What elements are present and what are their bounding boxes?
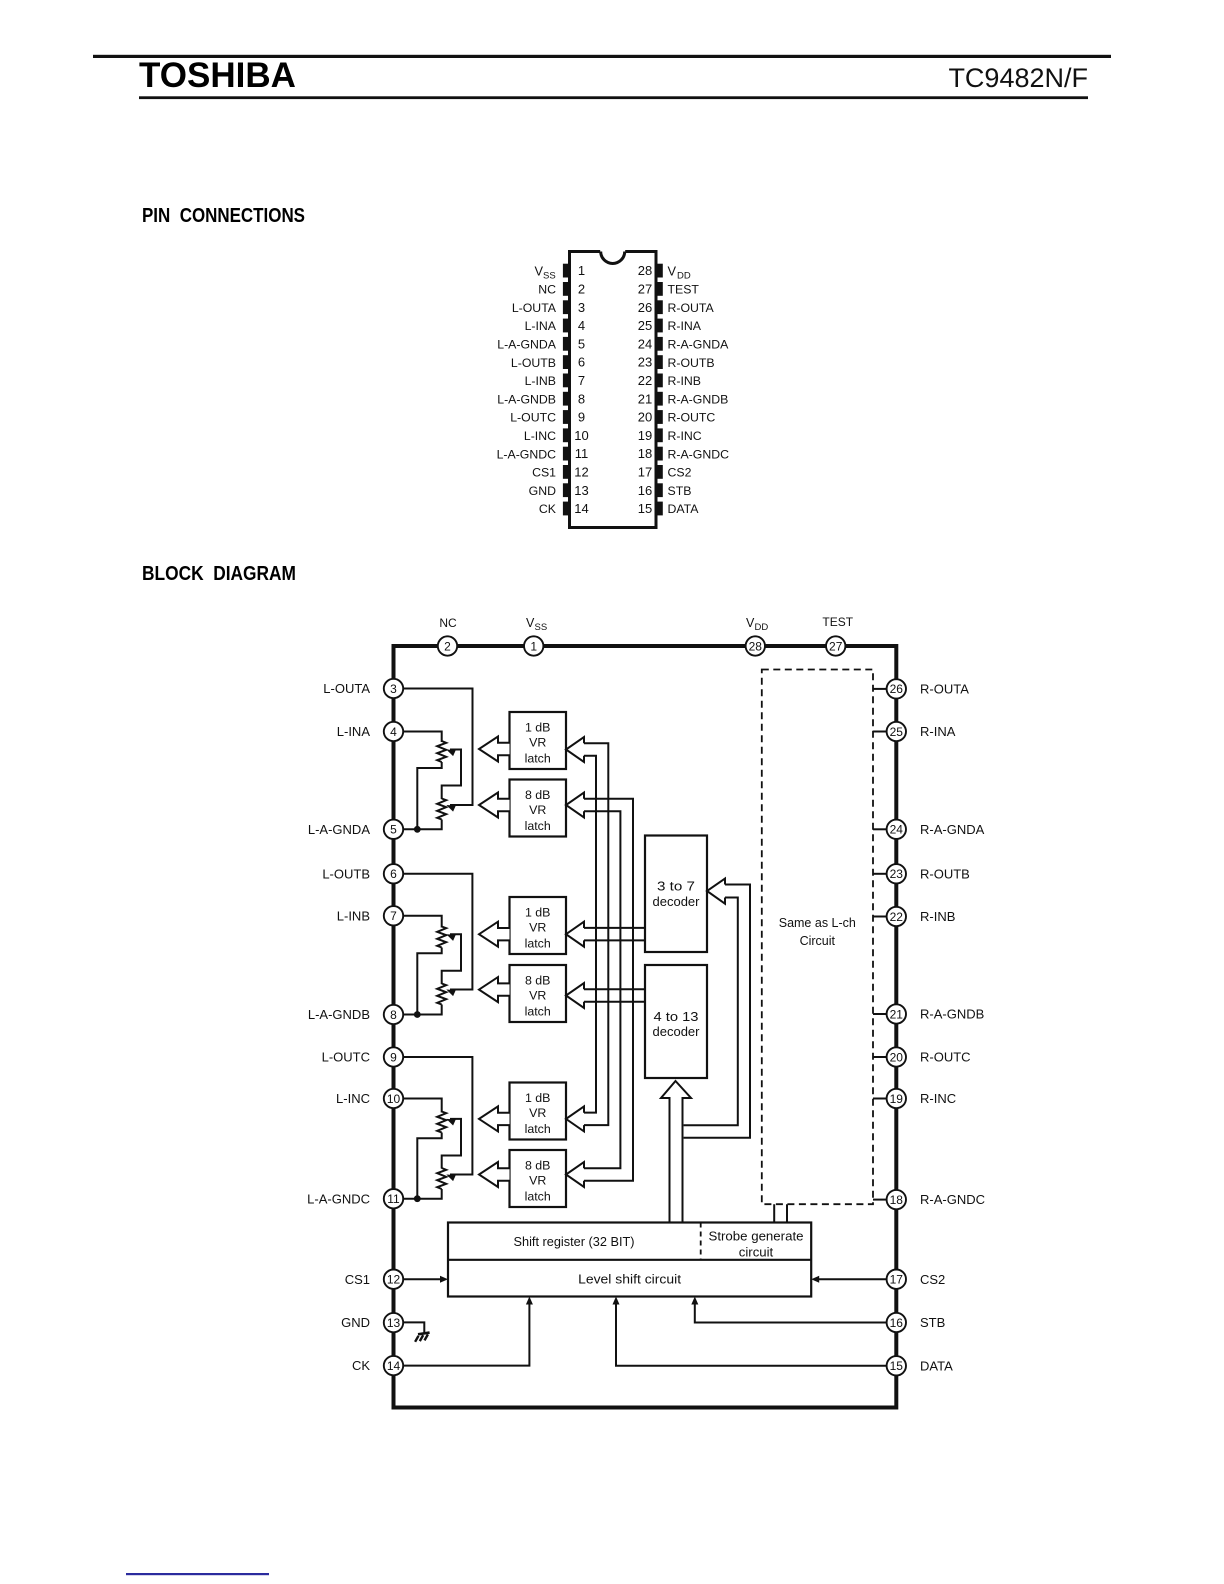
- latch U3 1 dB VR latch box: [510, 897, 567, 954]
- wiper arrow VR2C: [445, 1171, 456, 1181]
- footer rule (blue): [126, 1573, 269, 1575]
- DIP pin 13 lead (GND): [563, 483, 570, 497]
- pin label CK: [352, 1358, 370, 1373]
- DIP pin 17 number: [638, 465, 652, 480]
- latch U3 output block arrow: [479, 922, 510, 947]
- svg-text:DD: DD: [755, 622, 769, 633]
- svg-text:L-OUTC: L-OUTC: [322, 1050, 370, 1065]
- wire shift register to 3-to-7 decoder (line 1): [684, 885, 750, 1138]
- svg-text:R-A-GNDB: R-A-GNDB: [920, 1007, 984, 1022]
- svg-text:15: 15: [638, 501, 652, 516]
- junction node A (pin5): [414, 826, 421, 833]
- svg-text:DATA: DATA: [668, 502, 700, 516]
- DIP pin 12 number: [574, 465, 588, 480]
- wire VR1A bottom to pin5 rail: [417, 762, 441, 829]
- wire R-ch block to pin 23: [873, 873, 887, 875]
- svg-text:R-A-GNDA: R-A-GNDA: [668, 338, 730, 352]
- DIP pin 18 label R-A-GNDC: [668, 447, 730, 461]
- svg-text:L-INB: L-INB: [525, 374, 556, 388]
- wire R-ch block to pin 20: [873, 1056, 887, 1058]
- svg-text:L-INB: L-INB: [337, 908, 370, 923]
- wire R-ch block to pin 21: [873, 1013, 887, 1015]
- svg-text:9: 9: [390, 1050, 397, 1064]
- pin label CS1: [345, 1272, 370, 1287]
- DIP pin 3 label L-OUTA: [512, 301, 557, 315]
- DIP pin 1 number: [578, 263, 585, 278]
- DIP pin 21 label R-A-GNDB: [668, 392, 729, 406]
- svg-text:4: 4: [578, 318, 585, 333]
- potentiometer VR1C (1 dB): [437, 1112, 446, 1133]
- svg-text:decoder: decoder: [653, 894, 701, 909]
- wire pin3 L-OUTA to pot VR2A wiper: [402, 689, 473, 806]
- DIP pin 22 number: [638, 373, 652, 388]
- DIP pin 25 lead (R-INA): [656, 319, 663, 333]
- pin label L-A-GNDA: [308, 822, 370, 837]
- svg-text:9: 9: [578, 410, 585, 425]
- wire VR1C wiper to VR2C top: [442, 1119, 461, 1169]
- pin label R-OUTA: [920, 682, 969, 697]
- svg-text:R-OUTA: R-OUTA: [668, 301, 715, 315]
- DIP pin 2 number: [578, 282, 585, 297]
- svg-text:8 dB: 8 dB: [525, 788, 551, 802]
- DIP pin 18 lead (R-A-GNDC): [656, 447, 663, 461]
- node label VDD: [746, 616, 768, 633]
- package pin-1 index notch: [600, 249, 625, 263]
- wire STB into level shift: [691, 1297, 887, 1323]
- DIP pin 6 label L-OUTB: [511, 356, 556, 370]
- wire 4-to-13 decoder outputs to 8dB latch B: [584, 989, 645, 1002]
- DIP pin 16 lead (STB): [656, 483, 663, 497]
- svg-text:18: 18: [890, 1193, 904, 1207]
- DIP pin 9 label L-OUTC: [510, 411, 556, 425]
- svg-text:15: 15: [890, 1359, 904, 1373]
- svg-text:27: 27: [829, 639, 843, 653]
- svg-text:latch: latch: [525, 1190, 551, 1204]
- svg-text:L-INC: L-INC: [524, 429, 556, 443]
- DIP pin 23 number: [638, 355, 652, 370]
- svg-text:21: 21: [890, 1007, 904, 1021]
- pin 16 terminal circle (STB): [887, 1313, 906, 1332]
- pin label R-A-GNDC: [920, 1192, 985, 1207]
- svg-text:L-A-GNDA: L-A-GNDA: [308, 822, 370, 837]
- pin 28 terminal circle: [746, 636, 765, 655]
- pin 12 terminal circle (CS1): [384, 1270, 403, 1289]
- svg-text:Level shift circuit: Level shift circuit: [578, 1272, 681, 1287]
- wire R-ch block to pin 25: [873, 731, 887, 733]
- svg-text:6: 6: [390, 867, 397, 881]
- junction node B (pin8): [414, 1011, 421, 1018]
- DIP pin 23 label R-OUTB: [668, 356, 715, 370]
- wire pin13 GND to ground symbol: [402, 1322, 424, 1333]
- latch U5 input arrowhead: [566, 1106, 584, 1131]
- svg-text:6: 6: [578, 355, 585, 370]
- wiper arrow VR1A: [445, 746, 456, 756]
- svg-text:27: 27: [638, 282, 652, 297]
- latch U6 8 dB VR latch box: [510, 1150, 567, 1207]
- svg-text:25: 25: [890, 725, 904, 739]
- DIP pin 6 lead (L-OUTB): [563, 355, 570, 369]
- DIP pin 23 lead (R-OUTB): [656, 355, 663, 369]
- DIP pin 19 number: [638, 428, 652, 443]
- pin 2 terminal circle: [438, 636, 457, 655]
- pin 10 terminal circle (L-INC): [384, 1089, 403, 1108]
- latch U4 8 dB VR latch box: [510, 965, 567, 1022]
- svg-text:CS1: CS1: [345, 1272, 370, 1287]
- DIP pin 3 number: [578, 300, 585, 315]
- svg-text:R-A-GNDB: R-A-GNDB: [668, 392, 729, 406]
- wire R-ch block to pin 22: [873, 916, 887, 918]
- DIP pin 19 lead (R-INC): [656, 428, 663, 442]
- latch U4 input arrowhead: [566, 983, 584, 1008]
- svg-text:Strobe generate: Strobe generate: [709, 1229, 804, 1244]
- svg-text:13: 13: [574, 483, 588, 498]
- svg-text:GND: GND: [529, 484, 556, 498]
- svg-text:20: 20: [638, 410, 652, 425]
- bus block arrow into 4-to-13 decoder: [661, 1081, 691, 1223]
- svg-text:21: 21: [638, 391, 652, 406]
- svg-text:10: 10: [387, 1092, 401, 1106]
- pin label R-INB: [920, 909, 955, 924]
- wire R-ch block to pin 24: [873, 828, 887, 830]
- svg-text:R-A-GNDC: R-A-GNDC: [668, 447, 730, 461]
- DIP pin 8 label L-A-GNDB: [497, 392, 556, 406]
- wire pin7 L-INB to pot VR1B top: [402, 916, 442, 928]
- svg-text:L-OUTB: L-OUTB: [511, 356, 556, 370]
- DIP pin 15 number: [638, 501, 652, 516]
- svg-text:2: 2: [578, 282, 585, 297]
- pin label L-A-GNDC: [307, 1191, 370, 1206]
- svg-text:11: 11: [387, 1192, 400, 1206]
- DIP pin 15 label DATA: [668, 502, 700, 516]
- IC boundary box: [394, 646, 897, 1408]
- DIP pin 6 number: [578, 355, 585, 370]
- bus wire 8dB select line 1 (latch A top / latch C bottom): [584, 799, 633, 1181]
- pin 24 terminal circle (R-A-GNDA): [887, 820, 906, 839]
- svg-text:19: 19: [638, 428, 652, 443]
- DIP pin 22 label R-INB: [668, 374, 701, 388]
- DIP pin 25 label R-INA: [668, 319, 702, 333]
- latch U1 1 dB VR latch box: [510, 712, 567, 769]
- ground symbol (chassis): [415, 1333, 430, 1342]
- potentiometer VR2C (8 dB): [437, 1168, 446, 1189]
- latch U2 output block arrow: [479, 793, 510, 818]
- DIP pin 28 lead (VDD): [656, 264, 663, 278]
- svg-text:SS: SS: [535, 622, 548, 633]
- pin label CS2: [920, 1272, 945, 1287]
- DIP pin 5 lead (L-A-GNDA): [563, 337, 570, 351]
- svg-text:1 dB: 1 dB: [525, 720, 551, 734]
- svg-text:STB: STB: [668, 484, 692, 498]
- svg-text:R-A-GNDA: R-A-GNDA: [920, 822, 985, 837]
- svg-text:NC: NC: [439, 616, 457, 630]
- latch U1 output block arrow: [479, 737, 510, 762]
- DIP pin 4 number: [578, 318, 585, 333]
- wire CS1 into level shift: [402, 1276, 448, 1283]
- wire R-ch block to strobe circuit (2 lines): [774, 1204, 787, 1222]
- DIP pin 1 lead (VSS): [563, 264, 570, 278]
- wire R-ch block to pin 18: [873, 1199, 887, 1201]
- DIP pin 26 number: [638, 300, 652, 315]
- wire R-ch block to pin 19: [873, 1098, 887, 1100]
- svg-text:CS2: CS2: [920, 1272, 945, 1287]
- svg-text:17: 17: [638, 465, 652, 480]
- junction node C (pin11): [414, 1195, 421, 1202]
- pin label L-OUTA: [323, 681, 370, 696]
- decoder U7 input arrowhead: [707, 879, 725, 904]
- svg-text:19: 19: [890, 1092, 904, 1106]
- DIP pin 20 number: [638, 410, 652, 425]
- svg-text:VR: VR: [529, 1174, 546, 1188]
- svg-text:CS1: CS1: [532, 466, 556, 480]
- pin 5 terminal circle (L-A-GNDA): [384, 820, 403, 839]
- pin 15 terminal circle (DATA): [887, 1356, 906, 1375]
- pin 17 terminal circle (CS2): [887, 1270, 906, 1289]
- svg-text:VR: VR: [529, 736, 546, 750]
- DIP pin 27 label TEST: [668, 283, 700, 297]
- part number TC9482N/F: [948, 63, 1088, 93]
- svg-text:L-INA: L-INA: [337, 724, 371, 739]
- svg-text:7: 7: [578, 373, 585, 388]
- DIP pin 16 label STB: [668, 484, 692, 498]
- svg-text:1: 1: [578, 263, 585, 278]
- svg-text:latch: latch: [525, 1122, 551, 1136]
- svg-text:VR: VR: [529, 921, 546, 935]
- svg-text:V: V: [668, 263, 677, 278]
- DIP pin 7 lead (L-INB): [563, 374, 570, 388]
- shift register and level shift block: [448, 1223, 811, 1297]
- DIP pin 19 label R-INC: [668, 429, 702, 443]
- svg-text:1 dB: 1 dB: [525, 905, 551, 919]
- DIP pin 26 lead (R-OUTA): [656, 300, 663, 314]
- wire pin8 L-A-GNDB to VR2B bottom: [402, 1005, 442, 1015]
- pin label R-INA: [920, 724, 956, 739]
- DIP pin 5 label L-A-GNDA: [497, 338, 557, 352]
- wiper arrow VR2A: [445, 802, 456, 812]
- svg-text:decoder: decoder: [653, 1024, 701, 1039]
- pin label GND: [341, 1315, 370, 1330]
- DIP pin 25 number: [638, 318, 652, 333]
- wire pin10 L-INC to pot VR1C top: [402, 1099, 442, 1113]
- header top rule: [93, 55, 1111, 58]
- DIP pin 26 label R-OUTA: [668, 301, 715, 315]
- pin 26 terminal circle (R-OUTA): [887, 679, 906, 698]
- pin 22 terminal circle (R-INB): [887, 907, 906, 926]
- wire VR1C bottom to pin11 rail: [417, 1133, 441, 1199]
- svg-text:L-INC: L-INC: [336, 1091, 370, 1106]
- svg-text:R-OUTA: R-OUTA: [920, 682, 969, 697]
- pin 23 terminal circle (R-OUTB): [887, 864, 906, 883]
- svg-text:28: 28: [749, 639, 763, 653]
- svg-text:14: 14: [387, 1359, 401, 1373]
- pin 20 terminal circle (R-OUTC): [887, 1047, 906, 1066]
- svg-text:TEST: TEST: [822, 615, 853, 629]
- svg-text:R-INA: R-INA: [920, 724, 956, 739]
- pin 4 terminal circle (L-INA): [384, 722, 403, 741]
- pin label R-OUTB: [920, 866, 970, 881]
- DIP pin 4 label L-INA: [525, 319, 557, 333]
- IC package TC9482 body (28-pin DIP): [570, 252, 657, 528]
- DIP pin 28 label VDD: [668, 263, 691, 281]
- svg-text:L-A-GNDB: L-A-GNDB: [308, 1007, 370, 1022]
- svg-text:23: 23: [890, 867, 904, 881]
- wire VR1B bottom to pin8 rail: [417, 948, 441, 1015]
- svg-text:TEST: TEST: [668, 283, 700, 297]
- svg-text:8: 8: [390, 1008, 397, 1022]
- svg-text:12: 12: [387, 1273, 401, 1287]
- decoder U7 3-to-7 box: [645, 836, 707, 953]
- potentiometer VR1A (1 dB): [437, 741, 446, 762]
- svg-text:Circuit: Circuit: [800, 934, 836, 948]
- DIP pin 20 lead (R-OUTC): [656, 410, 663, 424]
- DIP pin 14 number: [574, 501, 588, 516]
- DIP pin 11 number: [575, 446, 589, 461]
- pin label STB: [920, 1315, 945, 1330]
- DIP pin 28 number: [638, 263, 652, 278]
- DIP pin 8 number: [578, 391, 585, 406]
- DIP pin 12 label CS1: [532, 466, 556, 480]
- svg-text:L-OUTA: L-OUTA: [512, 301, 557, 315]
- svg-text:R-INB: R-INB: [668, 374, 701, 388]
- pin label R-INC: [920, 1091, 956, 1106]
- svg-text:18: 18: [638, 446, 652, 461]
- pin 25 terminal circle (R-INA): [887, 722, 906, 741]
- DIP pin 27 lead (TEST): [656, 282, 663, 296]
- svg-text:26: 26: [890, 682, 904, 696]
- DIP pin 9 lead (L-OUTC): [563, 410, 570, 424]
- svg-text:TOSHIBA: TOSHIBA: [139, 56, 296, 95]
- pin 19 terminal circle (R-INC): [887, 1089, 906, 1108]
- latch U1 input arrowhead: [566, 737, 584, 762]
- svg-text:12: 12: [574, 465, 588, 480]
- pin 14 terminal circle (CK): [384, 1356, 403, 1375]
- svg-text:8: 8: [578, 391, 585, 406]
- pin label L-OUTB: [322, 866, 370, 881]
- wiper arrow VR1C: [445, 1116, 456, 1126]
- svg-text:GND: GND: [341, 1315, 370, 1330]
- svg-text:VR: VR: [529, 1106, 546, 1120]
- decoder U8 4-to-13 box: [645, 965, 707, 1078]
- node label VSS: [526, 616, 547, 633]
- wire pin5 L-A-GNDA to VR2A bottom: [402, 820, 442, 830]
- svg-text:R-INC: R-INC: [920, 1091, 956, 1106]
- svg-text:NC: NC: [538, 283, 556, 297]
- DIP pin 2 lead (NC): [563, 282, 570, 296]
- latch U3 input arrowhead: [566, 922, 584, 947]
- header bottom rule: [139, 96, 1088, 99]
- DIP pin 13 number: [574, 483, 588, 498]
- DIP pin 22 lead (R-INB): [656, 374, 663, 388]
- latch U5 output block arrow: [479, 1106, 510, 1131]
- DIP pin 16 number: [638, 483, 652, 498]
- BLOCK DIAGRAM heading: [142, 562, 296, 585]
- DIP pin 18 number: [638, 446, 652, 461]
- pin label R-A-GNDA: [920, 822, 985, 837]
- DIP pin 11 label L-A-GNDC: [497, 447, 557, 461]
- svg-text:DD: DD: [677, 270, 691, 281]
- svg-text:L-A-GNDB: L-A-GNDB: [497, 392, 556, 406]
- DIP pin 1 label VSS: [534, 263, 555, 281]
- pin label L-INA: [337, 724, 371, 739]
- wire pin4 L-INA to pot VR1A top: [402, 732, 442, 743]
- svg-text:5: 5: [390, 823, 397, 837]
- potentiometer VR2B (8 dB): [437, 984, 446, 1005]
- DIP pin 7 label L-INB: [525, 374, 556, 388]
- svg-text:R-A-GNDC: R-A-GNDC: [920, 1192, 985, 1207]
- pin 8 terminal circle (L-A-GNDB): [384, 1005, 403, 1024]
- svg-text:CS2: CS2: [668, 466, 692, 480]
- DIP pin 10 label L-INC: [524, 429, 556, 443]
- svg-text:25: 25: [638, 318, 652, 333]
- latch U6 input arrowhead: [566, 1162, 584, 1187]
- svg-text:CK: CK: [539, 502, 557, 516]
- svg-text:1 dB: 1 dB: [525, 1091, 551, 1105]
- pin 1 terminal circle: [524, 636, 543, 655]
- svg-text:R-INB: R-INB: [920, 909, 955, 924]
- wire pin6 L-OUTB to pot VR2B wiper: [402, 874, 472, 990]
- svg-text:5: 5: [578, 336, 585, 351]
- node label NC: [439, 616, 457, 630]
- svg-text:DATA: DATA: [920, 1358, 953, 1373]
- DIP pin 2 label NC: [538, 283, 556, 297]
- latch U2 8 dB VR latch box: [510, 780, 567, 837]
- pin label L-OUTC: [322, 1050, 370, 1065]
- svg-text:3: 3: [578, 300, 585, 315]
- pin label L-INB: [337, 908, 370, 923]
- wire DATA into level shift: [613, 1297, 888, 1366]
- svg-text:4: 4: [390, 725, 397, 739]
- wire pin11 L-A-GNDC to VR2C bottom: [402, 1189, 442, 1199]
- pin label L-A-GNDB: [308, 1007, 370, 1022]
- DIP pin 10 number: [574, 428, 588, 443]
- DIP pin 27 number: [638, 282, 652, 297]
- svg-text:4 to 13: 4 to 13: [654, 1009, 699, 1024]
- svg-text:Shift register (32 BIT): Shift register (32 BIT): [514, 1234, 635, 1249]
- svg-text:L-A-GNDC: L-A-GNDC: [497, 447, 557, 461]
- DIP pin 10 lead (L-INC): [563, 428, 570, 442]
- svg-text:16: 16: [638, 483, 652, 498]
- svg-text:R-OUTC: R-OUTC: [668, 411, 716, 425]
- svg-text:11: 11: [575, 446, 589, 461]
- wire VR1A wiper to VR2A top: [442, 750, 461, 800]
- svg-text:latch: latch: [525, 1005, 551, 1019]
- latch U2 input arrowhead: [566, 793, 584, 818]
- svg-text:latch: latch: [525, 937, 551, 951]
- svg-text:22: 22: [890, 910, 904, 924]
- wire VR1B wiper to VR2B top: [442, 934, 461, 984]
- svg-text:CK: CK: [352, 1358, 370, 1373]
- svg-text:16: 16: [890, 1316, 904, 1330]
- latch U4 output block arrow: [479, 977, 510, 1002]
- wire R-ch block to pin 26: [873, 688, 887, 690]
- svg-text:3: 3: [390, 682, 397, 696]
- DIP pin 24 label R-A-GNDA: [668, 338, 730, 352]
- DIP pin 13 label GND: [529, 484, 556, 498]
- wire pin9 L-OUTC to pot VR2C wiper: [402, 1057, 472, 1175]
- svg-text:24: 24: [638, 336, 652, 351]
- DIP pin 21 number: [638, 391, 652, 406]
- pin 9 terminal circle (L-OUTC): [384, 1047, 403, 1066]
- svg-text:L-OUTC: L-OUTC: [510, 411, 556, 425]
- DIP pin 3 lead (L-OUTA): [563, 300, 570, 314]
- DIP pin 14 lead (CK): [563, 502, 570, 516]
- wiper arrow VR1B: [445, 931, 456, 941]
- svg-text:23: 23: [638, 355, 652, 370]
- pin 6 terminal circle (L-OUTB): [384, 864, 403, 883]
- potentiometer VR1B (1 dB): [437, 927, 446, 948]
- svg-text:22: 22: [638, 373, 652, 388]
- svg-text:L-INA: L-INA: [525, 319, 557, 333]
- pin 18 terminal circle (R-A-GNDC): [887, 1190, 906, 1209]
